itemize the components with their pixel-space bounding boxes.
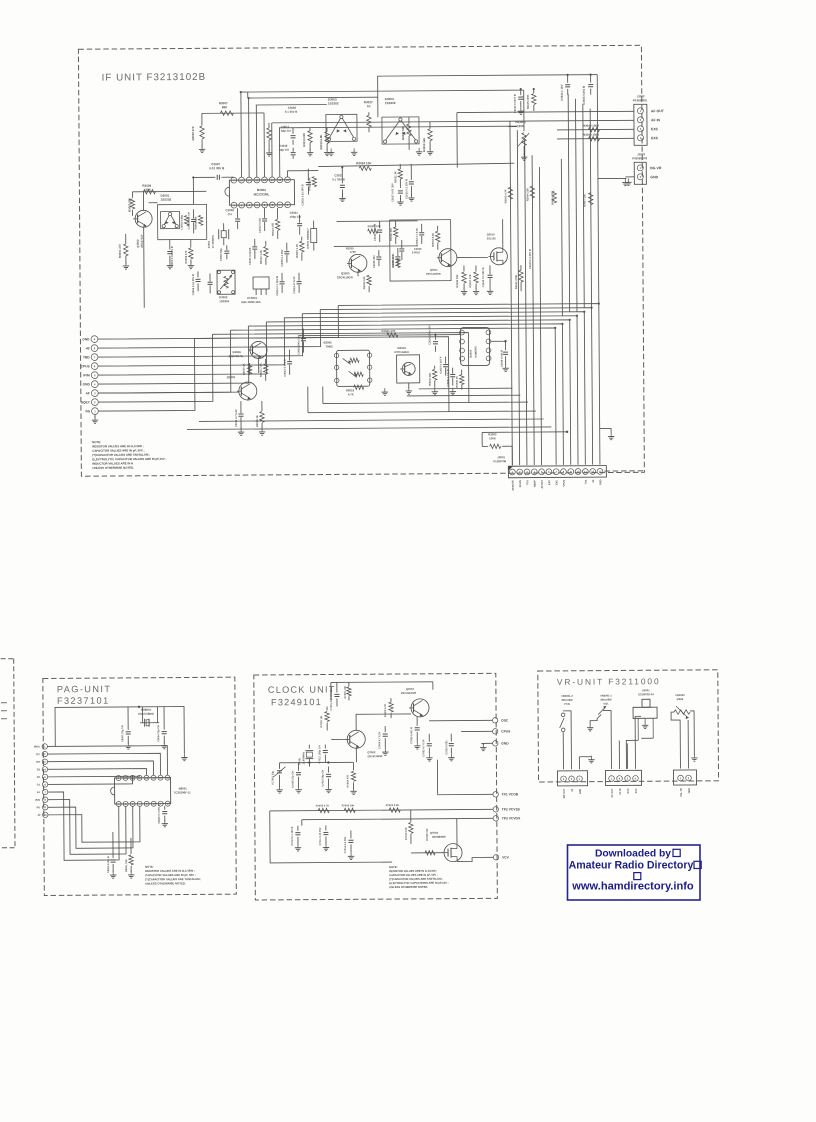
ground C7011 xyxy=(325,844,327,848)
svg-text:CSA3.58MG: CSA3.58MG xyxy=(138,712,154,716)
IC B3004 top pin 10 xyxy=(239,177,245,183)
capacitor C3026 xyxy=(373,221,383,242)
svg-text:R3015 1.4K: R3015 1.4K xyxy=(295,244,299,258)
svg-text:R3018 6.8K: R3018 6.8K xyxy=(319,135,323,150)
wire tall bundle vertical xyxy=(561,159,562,316)
ground under C8003 xyxy=(127,742,129,746)
svg-text:R3013 620: R3013 620 xyxy=(302,133,306,147)
svg-text:C3049 0.001 B: C3049 0.001 B xyxy=(500,350,504,368)
svg-text:C3016 100u 10V: C3016 100u 10V xyxy=(296,335,300,355)
PAG pin 5 (D0) xyxy=(37,774,48,779)
wire PAG pin2 route xyxy=(48,753,161,776)
wire nest rail 4 xyxy=(266,320,570,467)
IF pin 8 (+B) xyxy=(85,345,98,352)
wire vert x460 xyxy=(456,113,458,168)
capacitor C3049 xyxy=(499,341,508,367)
wire vol p3 xyxy=(626,743,628,768)
svg-text:GND: GND xyxy=(650,175,658,179)
junction dot bus y76 c3045 xyxy=(590,74,592,76)
svg-text:TM02: TM02 xyxy=(325,344,333,348)
svg-text:1: 1 xyxy=(611,777,613,781)
svg-text:+B: +B xyxy=(571,789,574,792)
svg-text:X3001: X3001 xyxy=(207,240,211,248)
wire J3002 pin4 line xyxy=(557,137,634,140)
svg-text:R7008 100: R7008 100 xyxy=(426,828,429,841)
svg-text:4: 4 xyxy=(44,767,46,771)
svg-text:R7004 47E: R7004 47E xyxy=(346,775,349,788)
svg-text:1: 1 xyxy=(640,109,642,113)
IC B8001 bottom pin 6 xyxy=(151,801,156,806)
switch SW (VR5001-2) xyxy=(560,713,565,732)
wire IC pin14 riser xyxy=(271,123,273,177)
label J3003 pin names xyxy=(650,166,662,179)
IC B8001 top pin 13 xyxy=(144,775,149,780)
IC B3004 bottom pin 2 xyxy=(239,202,245,208)
svg-text:2: 2 xyxy=(688,776,690,780)
label VR5002 xyxy=(675,693,685,701)
transistor Q3010 fet xyxy=(487,232,508,265)
svg-text:C3030: C3030 xyxy=(414,247,422,251)
svg-text:SCD8P2D-04: SCD8P2D-04 xyxy=(638,692,654,696)
resistor R3033 xyxy=(358,272,371,292)
svg-text:TP3 VCVOX: TP3 VCVOX xyxy=(502,816,521,820)
svg-text:RS: RS xyxy=(86,409,90,413)
capacitor C3042 xyxy=(513,89,524,114)
resistor R3013 xyxy=(302,128,312,151)
svg-text:SCAN: SCAN xyxy=(519,480,522,487)
svg-text:3: 3 xyxy=(44,760,46,764)
wire vol p4 xyxy=(634,716,636,768)
svg-text:C3045 0.001 B: C3045 0.001 B xyxy=(582,86,586,105)
svg-text:C8003 33p CH: C8003 33p CH xyxy=(121,725,124,742)
crystal X7001 xyxy=(298,745,313,767)
svg-text:MNO: MNO xyxy=(34,746,40,749)
svg-text:TP1 VCOB: TP1 VCOB xyxy=(502,792,519,796)
svg-text:UNLESS OTHERWISE NOTED.: UNLESS OTHERWISE NOTED. xyxy=(389,885,428,889)
transistor Q7002 xyxy=(345,730,382,758)
wire bus y112 xyxy=(202,112,264,114)
IC B8001 bottom pin 3 xyxy=(130,801,135,806)
ground EXC stub xyxy=(627,178,629,182)
shield box around D3001 xyxy=(158,204,207,239)
ground C7004 xyxy=(384,748,386,752)
ground C7005 xyxy=(416,742,418,746)
svg-text:F3249101: F3249101 xyxy=(271,697,322,707)
resistor R3029 xyxy=(368,224,381,233)
svg-text:C3032 4.7 6.3V: C3032 4.7 6.3V xyxy=(415,228,419,246)
dot B3014 out xyxy=(504,340,506,342)
resistor R3043 xyxy=(503,187,512,203)
svg-text:S5001: S5001 xyxy=(642,688,650,692)
wire Q7002 emitter xyxy=(355,748,357,762)
wire fet gate xyxy=(457,256,488,258)
wire TP3 line xyxy=(302,818,493,819)
ground under pin column xyxy=(92,415,98,424)
wire B3014 pin right xyxy=(491,340,506,342)
svg-text:AFMUTE: AFMUTE xyxy=(512,480,515,491)
svg-text:Q3010: Q3010 xyxy=(487,232,495,236)
svg-text:AF: AF xyxy=(86,391,90,395)
svg-text:R7006 10K: R7006 10K xyxy=(342,804,355,807)
svg-text:Amateur Radio Directory: Amateur Radio Directory xyxy=(569,860,694,872)
svg-text:1SS294: 1SS294 xyxy=(219,299,229,303)
svg-text:R3042 470K: R3042 470K xyxy=(514,274,518,289)
svg-text:2: 2 xyxy=(571,777,573,781)
svg-text:Downloaded by: Downloaded by xyxy=(595,848,671,859)
ground x433 xyxy=(429,148,431,152)
connector J3002 xyxy=(633,94,648,145)
wire TP2 line xyxy=(270,809,493,811)
IC B8001 bottom pin 4 xyxy=(137,801,142,806)
svg-text:D3002 GRN08C7: D3002 GRN08C7 xyxy=(306,228,310,249)
wire vol p1 xyxy=(603,711,611,770)
capacitor C3040 xyxy=(481,265,493,287)
ground under B301C xyxy=(408,387,410,391)
svg-text:0.1 35V B: 0.1 35V B xyxy=(332,177,344,181)
junction dot rail 0 xyxy=(598,302,600,304)
svg-text:R3039 150K: R3039 150K xyxy=(391,253,395,268)
svg-text:AF: AF xyxy=(37,791,41,794)
IC B8001 bottom pin 5 xyxy=(144,801,149,806)
svg-text:C3011 4.7 6.3V: C3011 4.7 6.3V xyxy=(234,409,238,427)
svg-text:C3036 4.7 6.3V: C3036 4.7 6.3V xyxy=(446,368,450,386)
ground under R3009b xyxy=(261,428,263,432)
credit box glyph3 xyxy=(634,873,641,880)
wire nest rail 5 xyxy=(248,324,563,467)
diode D3002 vertical xyxy=(306,221,317,251)
IC B3004 bottom pin 1 xyxy=(231,202,237,208)
wire from pin 9 xyxy=(98,305,339,339)
ground right of TM02 xyxy=(384,388,386,392)
resistor R3044 xyxy=(525,186,534,201)
capacitor C3019 xyxy=(292,273,302,294)
svg-text:C3043 0.1 35V B: C3043 0.1 35V B xyxy=(528,249,532,269)
wire xtal rail xyxy=(279,761,353,764)
capacitor C7009 xyxy=(291,763,301,788)
wire Q3002 emitter xyxy=(143,228,146,308)
capacitor C3015 xyxy=(280,243,290,267)
svg-text:2SC2712Y: 2SC2712Y xyxy=(140,234,144,248)
resistor R3059 xyxy=(422,122,432,152)
svg-text:2SK880BR: 2SK880BR xyxy=(432,835,446,839)
IC B3004 top pin 16 xyxy=(285,177,291,183)
svg-text:100p CH: 100p CH xyxy=(290,215,301,219)
wire IC pin9 riser xyxy=(233,176,235,178)
svg-text:PO: PO xyxy=(37,806,41,809)
svg-text:C3022 0.01 35V B: C3022 0.01 35V B xyxy=(300,184,304,205)
resistor R3012 xyxy=(259,241,268,265)
junction dot rail 2 xyxy=(583,311,585,313)
svg-text:R3036 10K: R3036 10K xyxy=(455,274,459,287)
wire CPUS line xyxy=(461,730,492,732)
IC B3004 bottom pin 4 xyxy=(254,202,260,208)
wire x196 drop xyxy=(192,177,194,204)
wire clock bus drop left xyxy=(330,682,332,700)
svg-text:GND: GND xyxy=(599,479,602,485)
svg-text:0.1 35V B: 0.1 35V B xyxy=(285,110,297,114)
wire bundle vertical xyxy=(525,139,527,465)
wire GND line xyxy=(481,743,492,745)
resistor R3060 xyxy=(482,432,512,448)
capacitor C7001 xyxy=(330,682,340,710)
svg-text:GND: GND xyxy=(579,788,582,794)
svg-text:5: 5 xyxy=(94,373,96,377)
svg-text:AF IN: AF IN xyxy=(619,788,622,795)
wire bundle vertical xyxy=(517,130,519,465)
svg-text:CPUS: CPUS xyxy=(501,729,511,733)
IC B8001 top pin 15 xyxy=(158,775,163,780)
ground x436 xyxy=(434,388,436,392)
svg-text:C7002 4.7 6.3V: C7002 4.7 6.3V xyxy=(422,739,425,757)
CLOCK unit title xyxy=(268,684,336,707)
capacitor C3038 xyxy=(391,248,401,267)
svg-text:P1090708: P1090708 xyxy=(493,459,506,463)
svg-text:2: 2 xyxy=(640,175,642,179)
svg-text:Q7001: Q7001 xyxy=(406,687,415,691)
IF pin 2 (SQEY) xyxy=(81,399,98,406)
transistor B3006 xyxy=(228,341,267,358)
wire cluster rail y201 xyxy=(148,202,157,204)
resistor R3030 xyxy=(346,246,356,254)
svg-text:7: 7 xyxy=(44,790,46,794)
wire vert x251 xyxy=(247,92,249,98)
transistor Q3005 xyxy=(227,375,257,400)
resistor R3008 xyxy=(191,113,204,147)
svg-text:RESISTOR VALUES ARE IN Ω,1/16W: RESISTOR VALUES ARE IN Ω,1/16W ; xyxy=(389,869,437,873)
connector VR block1 xyxy=(557,771,587,786)
wire rail y412 xyxy=(308,411,536,413)
svg-text:20KA/8W: 20KA/8W xyxy=(600,698,612,702)
junction dot y335 c3034 xyxy=(434,334,436,336)
wire PAG pin3 route xyxy=(48,761,154,776)
wire nest rail 1 xyxy=(320,308,592,467)
junction dot R3024 line xyxy=(341,166,343,168)
svg-text:EXC: EXC xyxy=(627,788,630,793)
CLOCK pin TP3 VCVOX xyxy=(493,815,521,821)
variable resistor VR3001 xyxy=(515,90,529,160)
svg-text:2: 2 xyxy=(619,777,621,781)
wire y412 drop xyxy=(307,387,309,413)
svg-text:C3044 1 16V: C3044 1 16V xyxy=(560,84,564,100)
resistor R3042 xyxy=(514,265,523,291)
svg-text:R3059 56K: R3059 56K xyxy=(422,138,426,152)
transformer T3001 xyxy=(217,270,235,294)
PAG pin 7 (AF) xyxy=(37,789,48,794)
PAG pin 6 (G1) xyxy=(37,782,48,787)
capacitor C3034 xyxy=(427,325,438,352)
wire crystal riser left xyxy=(142,707,144,723)
svg-text:F3237101: F3237101 xyxy=(57,696,110,706)
wire y403 drop xyxy=(322,387,324,404)
ground under C8002 xyxy=(164,820,166,824)
svg-text:3: 3 xyxy=(627,777,629,781)
ground x492 xyxy=(489,287,491,291)
partial unit stubs xyxy=(1,703,7,719)
resistor R3031 xyxy=(393,164,402,188)
svg-text:NJM2902: NJM2902 xyxy=(474,346,478,358)
svg-text:2SJ125: 2SJ125 xyxy=(487,236,497,240)
svg-text:GND: GND xyxy=(83,382,91,386)
wire rail y389 xyxy=(419,387,513,390)
capacitor C7012 xyxy=(318,745,328,764)
svg-text:AF IN: AF IN xyxy=(651,118,661,122)
resistor R3035 xyxy=(455,370,464,390)
junction dot bus y89 c3042 xyxy=(520,88,522,90)
capacitor C3004 xyxy=(187,209,197,233)
capacitor C7004 xyxy=(378,726,388,749)
svg-text:R3024 10K: R3024 10K xyxy=(356,161,372,165)
diode D3004 1SS302 xyxy=(382,97,419,144)
IC B3004 top pin 9 xyxy=(231,177,237,183)
capacitor C7014 xyxy=(344,830,354,853)
ground x478 xyxy=(475,287,477,291)
svg-text:VR5002: VR5002 xyxy=(675,693,685,697)
ground C7002 xyxy=(428,754,430,758)
wire TP2 left drop xyxy=(270,810,392,863)
wire bundle vertical xyxy=(539,167,541,465)
wire EXC gnd stub xyxy=(598,177,626,179)
connector J3001 label xyxy=(493,455,506,463)
transistor Q7003 fet xyxy=(430,831,462,862)
wire PAG pin8 route xyxy=(48,799,126,854)
wire R3060 rail xyxy=(482,431,568,466)
wire PAG pin10 route xyxy=(48,806,140,842)
resistor R3016 xyxy=(267,123,272,151)
IC B3004 top pin 13 xyxy=(262,177,268,183)
dot xtal rail xyxy=(308,761,310,763)
wire IC pin11 riser xyxy=(248,98,251,177)
ground C7014 xyxy=(350,852,352,856)
svg-text:AFCNT: AFCNT xyxy=(541,480,544,489)
resistor R3058 xyxy=(401,117,411,150)
wire from pin 8 xyxy=(98,310,321,349)
svg-text:GND: GND xyxy=(82,337,90,341)
svg-text:C3014 0.1 35V B: C3014 0.1 35V B xyxy=(275,276,279,296)
svg-text:(T)CAPACITOR VALUES ARE TANTAL: (T)CAPACITOR VALUES ARE TANTALUM ; xyxy=(389,877,443,881)
resistor R3007 xyxy=(219,101,234,115)
PAG unit title xyxy=(57,684,112,706)
IC B8001 top pin 16 xyxy=(165,775,170,780)
svg-text:2: 2 xyxy=(44,752,46,756)
PAG pin 3 (DH) xyxy=(36,759,47,764)
op-amp U B3004 MC3372ML body xyxy=(225,180,295,205)
wire sw pin c xyxy=(578,757,580,769)
wire bus y127 xyxy=(279,126,517,128)
svg-text:R8001 33K: R8001 33K xyxy=(125,859,128,872)
svg-text:C3012 0.022: C3012 0.022 xyxy=(258,218,262,233)
junction dot bus y91 xyxy=(240,91,242,93)
capacitor C8002 xyxy=(158,804,168,823)
resistor R3017 xyxy=(307,177,316,191)
ground x454 xyxy=(452,388,454,392)
crystal X3001 xyxy=(207,223,229,248)
credit box glyph1 xyxy=(673,849,680,856)
svg-text:1: 1 xyxy=(640,166,642,170)
IC B8001 top pin 9 xyxy=(116,775,121,780)
wire Q7001-Q7002 link xyxy=(356,714,411,730)
svg-text:AF OUT: AF OUT xyxy=(611,788,614,797)
resistor R3046 xyxy=(550,191,556,205)
svg-text:7: 7 xyxy=(94,355,96,359)
wire fet drain up xyxy=(502,219,504,247)
svg-text:C7009 27p CH: C7009 27p CH xyxy=(291,771,294,788)
IC B3004 bottom pin 3 xyxy=(246,202,252,208)
wire crystal riser right xyxy=(157,707,159,723)
capacitor C3020 xyxy=(285,106,298,114)
wire J3003 gnd stub xyxy=(625,176,634,178)
svg-text:TOS: TOS xyxy=(526,480,529,485)
resistor R7004 xyxy=(346,762,355,788)
svg-text:1SS302: 1SS302 xyxy=(160,198,171,202)
svg-text:2: 2 xyxy=(640,118,642,122)
IF pin 7 (TBD) xyxy=(83,354,98,361)
svg-text:1: 1 xyxy=(94,409,96,413)
ground under C8005 xyxy=(112,871,114,875)
svg-text:R3012 1.4K: R3012 1.4K xyxy=(259,250,263,264)
svg-text:DV: DV xyxy=(36,753,40,756)
svg-text:C7013 0.1 35V B: C7013 0.1 35V B xyxy=(291,826,294,845)
resistor R3032 xyxy=(428,366,437,388)
svg-text:P03090G03: P03090G03 xyxy=(632,156,647,160)
svg-text:C3037 0.047 F: C3037 0.047 F xyxy=(439,356,443,374)
wire bundle vertical xyxy=(510,121,512,465)
wire tall bundle vertical xyxy=(568,94,570,312)
svg-text:C3004 35V CH: C3004 35V CH xyxy=(187,212,191,230)
ground C7013 xyxy=(297,844,299,848)
resistor R3011 xyxy=(259,359,268,381)
svg-text:R7003 1M: R7003 1M xyxy=(320,716,323,728)
wire clock bus drop right xyxy=(432,682,434,690)
pot VOL arrow xyxy=(598,706,606,715)
capacitor C3016 xyxy=(296,329,306,355)
wire vr5002 gnd xyxy=(690,711,694,755)
svg-text:R3001 470: R3001 470 xyxy=(118,244,122,258)
CLOCK pin OSC xyxy=(492,718,509,724)
svg-text:8: 8 xyxy=(94,346,96,350)
resistor R3034 xyxy=(431,226,440,250)
svg-text:VOL VR: VOL VR xyxy=(680,788,683,797)
svg-text:R3055 330: R3055 330 xyxy=(194,216,198,229)
IC B8001 bottom pin 2 xyxy=(123,801,128,806)
connector J3001 xyxy=(508,466,606,478)
crystal X8001 xyxy=(138,708,159,727)
transistor Q3002 xyxy=(133,210,152,248)
svg-text:8: 8 xyxy=(563,470,565,474)
ground clock gnd pin xyxy=(482,743,484,747)
junction dot rail 5 xyxy=(561,323,563,325)
svg-text:VOL: VOL xyxy=(603,702,609,706)
ground S5001 xyxy=(644,721,646,725)
wire sw gnd stub xyxy=(579,756,591,758)
wire from pin 1 xyxy=(98,338,195,411)
svg-text:L3001 0.68u: L3001 0.68u xyxy=(180,214,184,229)
svg-text:AF OUT: AF OUT xyxy=(651,109,665,113)
svg-text:P03090S21: P03090S21 xyxy=(633,98,648,102)
svg-text:Q7003: Q7003 xyxy=(430,831,439,835)
svg-text:GND: GND xyxy=(501,741,509,745)
svg-text:MC3372ML: MC3372ML xyxy=(254,192,270,196)
capacitor C3001 xyxy=(248,239,258,265)
resistor R8001 xyxy=(125,838,133,872)
capacitor C3009 xyxy=(226,208,241,229)
ground C7009 xyxy=(298,786,300,790)
wire Q7002 base xyxy=(331,738,347,740)
svg-text:TP2 VCV1B: TP2 VCV1B xyxy=(502,807,521,811)
IF pin 9 (GND) xyxy=(82,336,98,343)
resistor R7005 xyxy=(316,804,330,812)
wire from pin 5 xyxy=(98,322,267,375)
wire s5001 route2 xyxy=(641,737,653,739)
